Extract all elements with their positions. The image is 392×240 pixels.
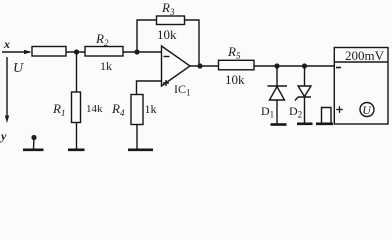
ground (R1) (68, 149, 85, 152)
ground (y terminal) (23, 149, 44, 152)
svg-text:1k: 1k (100, 59, 112, 73)
voltmeter minus terminal (336, 67, 341, 69)
ground (voltmeter) (316, 123, 333, 126)
wire node A down to R1 (76, 52, 78, 92)
wire non-inverting input to R4 (137, 81, 162, 95)
voltmeter box (334, 48, 388, 125)
svg-text:U: U (362, 103, 372, 117)
meter symbol U (circled) (360, 103, 374, 117)
diode D2 (cathode down) (304, 66, 306, 86)
svg-text:200mV: 200mV (345, 48, 385, 63)
node y terminal dot to ground (31, 135, 36, 140)
wire feedback up and across to R3 (137, 20, 157, 52)
ground (R4) (128, 149, 153, 152)
wire R4 to ground (136, 125, 138, 150)
resistor R3 (157, 16, 185, 25)
svg-text:14k: 14k (86, 103, 103, 115)
node C (output / feedback junction) (197, 63, 202, 68)
resistor R1 (72, 92, 81, 123)
resistor (input series, unlabeled) (32, 47, 66, 57)
svg-text:10k: 10k (225, 72, 245, 87)
wire voltmeter plus to ground (322, 108, 332, 124)
ground (D1) (271, 123, 287, 126)
op-amp minus input marking (164, 56, 170, 58)
node U (input voltage arrow) (6, 57, 8, 120)
wire R5 to voltmeter (254, 65, 334, 67)
op-amp plus input marking (163, 82, 169, 84)
wire R1 to ground (76, 123, 78, 150)
svg-text:1k: 1k (145, 102, 157, 116)
svg-text:10k: 10k (157, 27, 177, 42)
node A (junction of series resistor, R2, R1) (74, 49, 79, 54)
svg-text:U: U (13, 61, 24, 76)
svg-text:x: x (3, 37, 10, 51)
node B (inverting input / feedback junction) (134, 49, 139, 54)
wire op-amp output to R5 (190, 65, 219, 67)
node D (D1 tap) (274, 63, 279, 68)
resistor R5 (219, 60, 255, 70)
wire to node A (66, 51, 85, 53)
wire R3 to output node (185, 20, 200, 66)
diode D1 (cathode up) (276, 66, 278, 86)
node E (D2 tap) (302, 63, 307, 68)
wire R2 to op-amp inverting input (123, 51, 162, 53)
svg-text:y: y (0, 129, 7, 143)
ground (D2) (297, 123, 313, 126)
voltmeter plus terminal (336, 109, 343, 111)
wire input arrow into series resistor (2, 51, 30, 53)
op-amp U1 (IC1) (162, 46, 191, 86)
resistor R2 (85, 47, 123, 57)
resistor R4 (131, 95, 143, 125)
